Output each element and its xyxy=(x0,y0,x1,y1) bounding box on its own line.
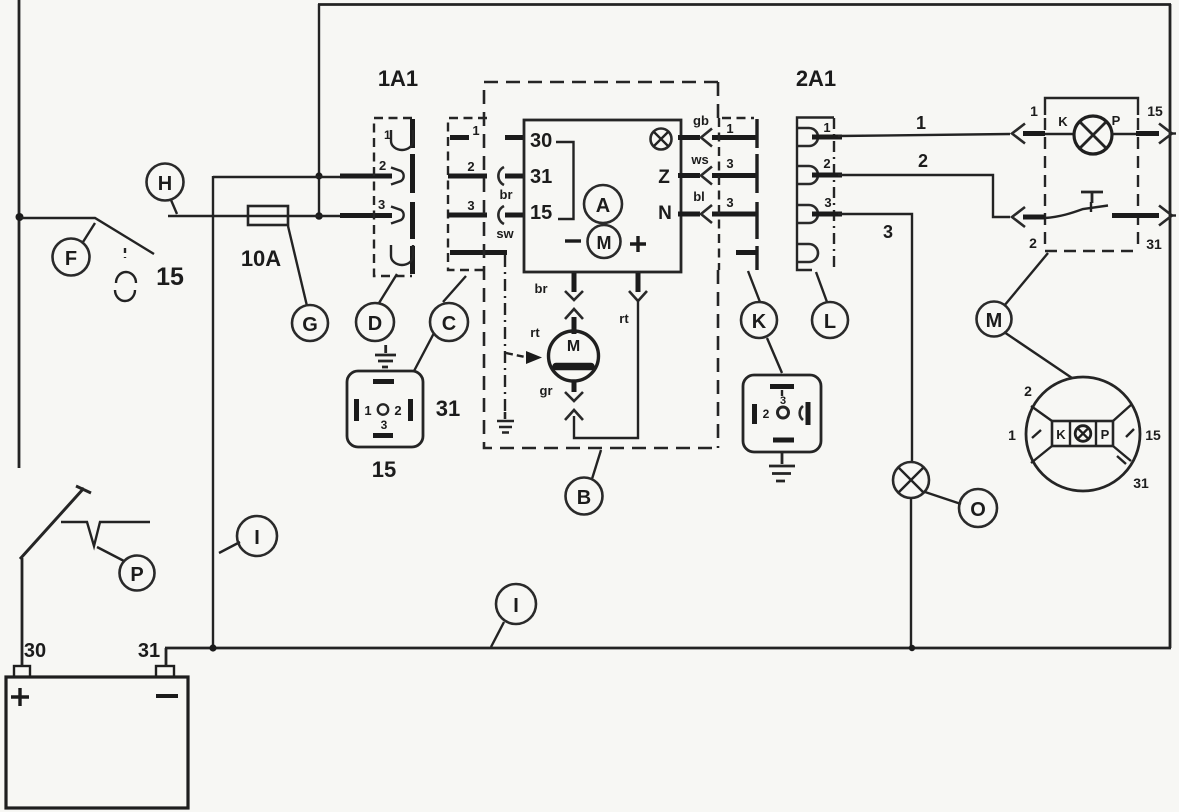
svg-text:15: 15 xyxy=(372,457,396,482)
wire: terminal 15 feed through fuse to 1A1 pin 3 xyxy=(168,215,345,217)
svg-text:1: 1 xyxy=(916,113,926,133)
svg-text:2: 2 xyxy=(918,151,928,171)
svg-text:15: 15 xyxy=(1145,427,1161,443)
motor M1 (washer pump) xyxy=(549,331,599,381)
contact chevron on + lead xyxy=(629,291,647,301)
connector 1A1 pin 2 socket xyxy=(391,168,404,185)
svg-text:N: N xyxy=(658,203,672,224)
svg-text:31: 31 xyxy=(1133,475,1149,491)
relay C pin bar top xyxy=(373,379,394,384)
A output bl (N): bar, contact, bar xyxy=(678,212,700,217)
node: junction supply drop / wire 31 row xyxy=(315,172,322,179)
wire 1: 2A1 pin1 to indicator lamp xyxy=(812,135,842,140)
connector 1A1 pin 3 socket xyxy=(391,207,404,224)
node: junction at switch F xyxy=(16,213,24,221)
svg-text:bl: bl xyxy=(693,189,705,204)
svg-text:I: I xyxy=(513,595,519,617)
battery G1 xyxy=(6,666,188,808)
pointer circle D xyxy=(356,274,397,341)
pointer circle M with tails xyxy=(977,253,1073,378)
wire: supply drop from frame to fuse wire xyxy=(318,4,320,217)
svg-text:31: 31 xyxy=(1146,236,1162,252)
svg-text:1: 1 xyxy=(726,121,733,136)
svg-text:H: H xyxy=(158,173,172,195)
connector 1A1 pin 1 socket xyxy=(391,130,413,150)
motor polarity marks - M + xyxy=(565,225,646,258)
pointer circle H xyxy=(147,164,184,215)
wire I: ground return drop to bus xyxy=(212,176,214,648)
svg-text:gr: gr xyxy=(540,383,553,398)
pointer circle G xyxy=(288,226,328,341)
svg-text:1: 1 xyxy=(384,128,391,142)
svg-text:L: L xyxy=(824,311,836,333)
svg-text:1: 1 xyxy=(472,123,479,138)
connector 2A1 right edge dash-dot xyxy=(833,118,835,268)
connector 2A1 housing xyxy=(797,118,834,271)
node: wire3 junction on ground bus xyxy=(909,645,915,651)
relay K pin bar top xyxy=(770,384,794,389)
indicator unit dashed housing with solid top bracket xyxy=(1045,98,1138,115)
relay K pin bar left xyxy=(752,404,757,424)
switch output bar to terminal 31 xyxy=(1112,213,1159,218)
contact chevrons on motor + lead xyxy=(565,291,583,319)
svg-text:10A: 10A xyxy=(241,246,281,271)
relay K centre ring xyxy=(778,407,789,418)
connector K housing dashed xyxy=(719,118,754,270)
node: wire I junction on ground bus xyxy=(209,644,216,651)
svg-text:M: M xyxy=(597,233,612,253)
svg-text:15: 15 xyxy=(1147,103,1163,119)
svg-text:B: B xyxy=(577,487,591,509)
cluster pointer ticks xyxy=(1032,429,1134,464)
ground below relay K xyxy=(769,452,795,481)
wire: A minus output down xyxy=(572,273,577,292)
svg-text:ws: ws xyxy=(690,152,708,167)
relay C pin bar right xyxy=(408,399,413,421)
svg-text:2A1: 2A1 xyxy=(796,66,836,91)
svg-text:1: 1 xyxy=(823,120,830,135)
svg-text:15: 15 xyxy=(156,263,184,291)
svg-text:K: K xyxy=(1058,114,1068,129)
svg-text:31: 31 xyxy=(530,166,552,188)
wire: battery + to switch P xyxy=(21,558,24,666)
svg-text:3: 3 xyxy=(378,197,385,212)
ground at relay C xyxy=(375,345,396,367)
relay K top pin stem and number 3 xyxy=(781,390,783,396)
svg-text:30: 30 xyxy=(530,130,552,152)
pointer circle C with tails xyxy=(414,276,468,371)
svg-text:3: 3 xyxy=(824,195,831,210)
wire: battery - to ground bus xyxy=(165,648,168,666)
pointer circle I (left) xyxy=(219,516,277,556)
svg-text:1: 1 xyxy=(364,403,371,418)
svg-text:3: 3 xyxy=(726,156,733,171)
pointer circle P xyxy=(97,547,155,591)
svg-text:2: 2 xyxy=(467,159,474,174)
connector C pin 2 bar xyxy=(448,174,487,179)
svg-text:M: M xyxy=(567,338,580,355)
wire: ground bus bottom (terminal 31) xyxy=(165,647,1171,650)
wire: A plus output down xyxy=(636,273,641,292)
svg-text:3: 3 xyxy=(381,418,388,432)
ground lead (dash-dot) inside B xyxy=(504,255,506,412)
svg-text:2: 2 xyxy=(394,403,401,418)
lamp E1 (washer jet lamp) xyxy=(893,462,929,498)
connector C pin 3 bar xyxy=(448,213,487,218)
switch pivot tick xyxy=(1090,202,1092,212)
svg-text:O: O xyxy=(970,499,986,521)
A output ws (Z): bar, contact, bar xyxy=(678,173,700,178)
svg-text:15: 15 xyxy=(530,202,552,224)
connector C pin 4 bar xyxy=(450,250,507,255)
svg-text:31: 31 xyxy=(138,640,160,662)
svg-text:sw: sw xyxy=(496,226,514,241)
switch P fixed contact xyxy=(61,522,150,546)
node: junction supply drop / fuse wire xyxy=(315,212,323,220)
connector K pin 4 bar xyxy=(736,250,758,255)
wire 2: 2A1 pin2 to switch xyxy=(812,173,842,178)
A output gb: bar, contact, bar xyxy=(678,135,700,140)
svg-text:rt: rt xyxy=(530,325,540,340)
svg-text:G: G xyxy=(302,314,318,336)
contact chevrons below motor xyxy=(572,381,577,392)
connector 1A1 right edge bold segments xyxy=(410,119,415,274)
svg-text:30: 30 xyxy=(24,640,46,662)
contact at indicator unit pin 2 xyxy=(1012,207,1025,227)
contact pair at A pin 15 xyxy=(498,206,504,224)
svg-text:gb: gb xyxy=(693,113,709,128)
svg-text:3: 3 xyxy=(726,195,733,210)
pointer circle A xyxy=(584,185,622,223)
pointer circle K with tails xyxy=(741,271,782,373)
pointer circle F xyxy=(53,223,96,276)
wire: pin 30 stub into control unit xyxy=(505,135,524,140)
svg-text:K: K xyxy=(752,311,767,333)
svg-text:I: I xyxy=(254,527,260,549)
wire: outer frame right border xyxy=(1169,4,1172,648)
relay socket (C) housing xyxy=(347,371,423,447)
connector 2A1 pin 1 socket xyxy=(798,128,818,146)
svg-text:2: 2 xyxy=(1029,235,1037,251)
wiper switch blade xyxy=(1045,206,1108,219)
contact at indicator unit pin 1 xyxy=(1012,124,1025,144)
wire: terminal 31 row to 1A1 pin 2 xyxy=(213,176,345,178)
relay K pin bar bottom xyxy=(773,438,794,443)
svg-text:M: M xyxy=(986,310,1003,332)
svg-text:Z: Z xyxy=(658,167,670,188)
svg-text:rt: rt xyxy=(619,311,629,326)
svg-text:31: 31 xyxy=(436,396,460,421)
instrument cluster pictorial circle xyxy=(1026,377,1140,491)
svg-text:3: 3 xyxy=(780,395,786,407)
connector 2A1 pin 4 socket xyxy=(798,244,818,262)
switch F contact arcs xyxy=(115,272,136,301)
switch actuator T xyxy=(1081,192,1103,203)
svg-text:P: P xyxy=(1112,113,1121,128)
svg-text:F: F xyxy=(65,248,77,270)
wire lamp to terminal 15 xyxy=(1112,133,1140,135)
connector C pin 1 bar xyxy=(450,135,469,140)
relay C pin bar bottom xyxy=(373,433,393,438)
relay K right pin bracket and bar xyxy=(800,406,803,420)
lamp symbol inside A xyxy=(651,129,672,150)
svg-text:P: P xyxy=(130,564,143,586)
svg-text:3: 3 xyxy=(467,198,474,213)
svg-text:br: br xyxy=(500,187,513,202)
switch F contact gap tick xyxy=(124,248,126,258)
svg-text:1A1: 1A1 xyxy=(378,66,418,91)
connector 2A1 pin 3 socket xyxy=(798,205,818,223)
wire: battery positive feed (terminal 30, left vertical) xyxy=(18,0,21,468)
svg-text:D: D xyxy=(368,313,382,335)
bracket joining 30/31/15 xyxy=(556,142,574,219)
pointer arrow to motor housing xyxy=(506,353,525,357)
svg-text:K: K xyxy=(1056,427,1066,442)
relay C pin bar left xyxy=(354,399,359,421)
pointer circle O xyxy=(925,489,997,527)
switch P (kick/park switch) blade xyxy=(20,486,91,559)
wire 3: 2A1 pin3 down to lamp O xyxy=(812,212,842,217)
unit boundary B dashed box xyxy=(484,82,718,448)
wire: lamp O to ground bus xyxy=(910,498,912,648)
contact arrow to frame terminal 15 xyxy=(1159,124,1172,144)
pointer circle B xyxy=(566,450,603,515)
cluster centre window K lamp P xyxy=(1052,421,1113,446)
connector 1A1 dashed housing xyxy=(374,118,412,276)
svg-text:C: C xyxy=(442,313,456,335)
svg-text:2: 2 xyxy=(379,158,386,173)
svg-text:br: br xyxy=(535,281,548,296)
contact pair at A pin 31 xyxy=(498,167,504,185)
svg-text:1: 1 xyxy=(1030,103,1038,119)
svg-text:2: 2 xyxy=(763,407,770,421)
contact arrow to frame terminal 31 xyxy=(1159,206,1172,226)
svg-text:2: 2 xyxy=(1024,383,1032,399)
svg-text:2: 2 xyxy=(823,156,830,171)
relay socket K housing xyxy=(743,375,821,452)
cluster spokes xyxy=(1031,404,1132,463)
svg-text:P: P xyxy=(1101,427,1110,442)
switch F (ignition switch) blade xyxy=(20,218,154,254)
connector C dashed housing xyxy=(448,118,487,270)
wire: plus lead loop to motor bottom xyxy=(574,299,638,438)
svg-text:1: 1 xyxy=(1008,427,1016,443)
wire: outer frame top border xyxy=(318,3,1171,6)
pointer circle L xyxy=(812,272,848,338)
svg-text:A: A xyxy=(596,195,610,217)
control unit A box xyxy=(524,120,681,272)
pointer circle I (bottom) xyxy=(491,584,536,647)
fuse F1 10A xyxy=(248,206,288,225)
connector 1A1 pin 4 socket xyxy=(391,245,413,265)
svg-text:3: 3 xyxy=(883,222,893,242)
connector 2A1 pin 2 socket xyxy=(798,166,818,184)
indicator lamp H1 with K and P xyxy=(1045,113,1121,154)
ground symbol inside B xyxy=(497,412,514,433)
